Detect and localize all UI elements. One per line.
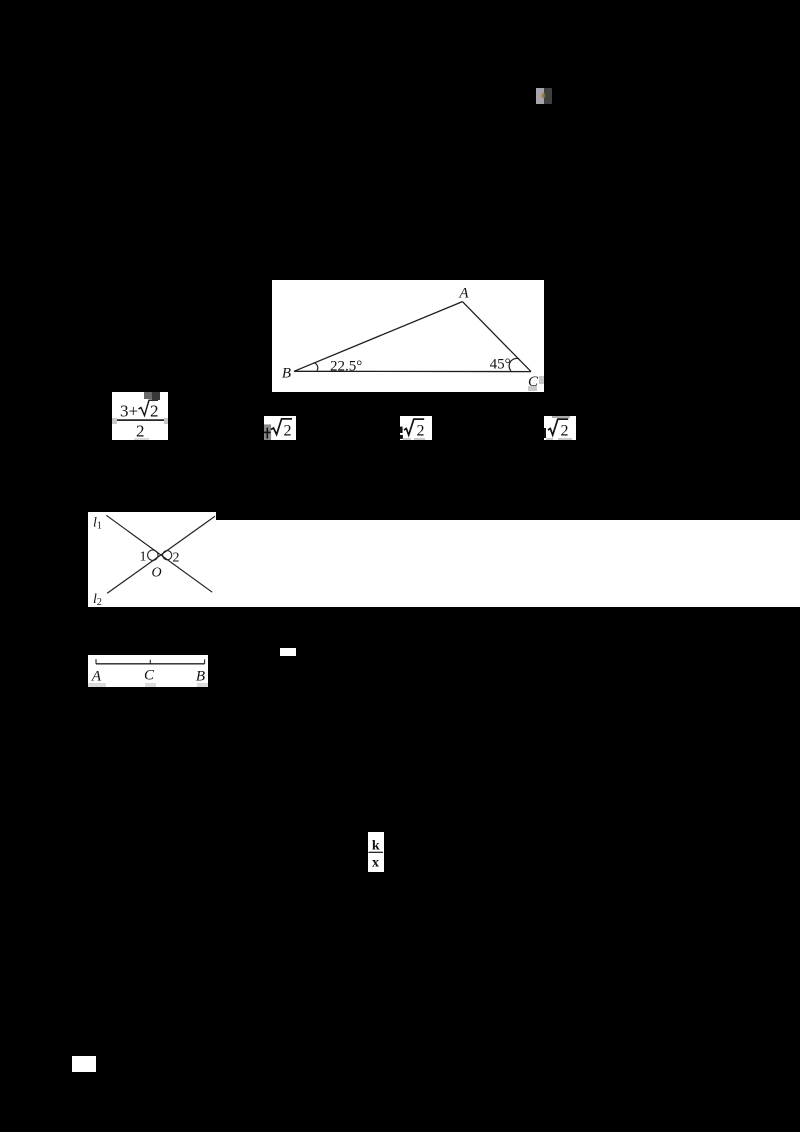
svg-text:B: B: [282, 366, 291, 382]
svg-text:1: 1: [140, 550, 147, 565]
gray square right of C: [539, 376, 544, 384]
white band of crossing-lines row: [216, 520, 800, 607]
svg-text:x: x: [372, 856, 379, 871]
wire segment: [96, 663, 205, 665]
triangle figure box: [272, 280, 544, 392]
svg-text:2: 2: [150, 402, 159, 421]
svg-text:2: 2: [284, 423, 292, 440]
option 3: sqrt2: [400, 416, 432, 440]
small white dash: [280, 648, 296, 656]
svg-text:B: B: [196, 669, 205, 685]
k/x fraction: [368, 832, 384, 872]
angle circle 2: [163, 551, 172, 560]
wire side BC: [294, 370, 531, 372]
tick C: [149, 660, 151, 664]
svg-text:3+: 3+: [120, 402, 138, 421]
svg-text:C: C: [144, 668, 155, 684]
svg-text:A: A: [458, 286, 469, 302]
angle arc at B: [313, 363, 317, 371]
tick A: [95, 659, 97, 664]
svg-text:k: k: [372, 839, 380, 854]
option 2: +sqrt2: [264, 416, 296, 440]
svg-text:2: 2: [173, 551, 180, 566]
wire side BA: [294, 302, 462, 372]
option 4: sqrt2: [544, 416, 576, 440]
svg-text:A: A: [91, 669, 102, 685]
angle circle 1: [148, 550, 158, 560]
bottom-left white rect: [72, 1056, 96, 1072]
gray square below C: [528, 386, 537, 391]
svg-text:l2: l2: [93, 592, 102, 607]
svg-text:l1: l1: [93, 516, 102, 532]
segment A C B figure: [88, 655, 208, 687]
option 1: (3+sqrt2)/2: [112, 392, 168, 440]
top emoji icon: [536, 88, 544, 104]
angle arc at C: [509, 358, 519, 370]
svg-text:45°: 45°: [490, 357, 511, 373]
tick B: [204, 659, 206, 663]
svg-text:22.5°: 22.5°: [330, 359, 362, 375]
gray squares over option 1: [144, 392, 152, 399]
svg-text:O: O: [151, 566, 161, 581]
line l1: [106, 515, 212, 592]
crossing lines figure box: [88, 512, 216, 607]
line l2: [107, 516, 215, 593]
wire side AC: [462, 302, 531, 372]
